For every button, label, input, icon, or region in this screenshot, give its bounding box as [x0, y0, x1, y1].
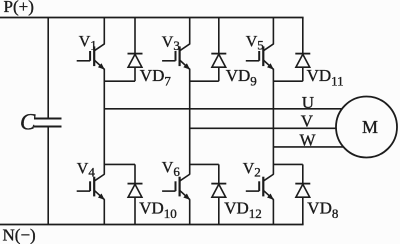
svg-text:V6: V6	[162, 160, 181, 179]
transistor V3 (IGBT)	[162, 44, 190, 70]
svg-text:VD11: VD11	[307, 66, 344, 88]
svg-text:V4: V4	[77, 160, 96, 179]
wire VD9 cathode lead	[218, 18, 220, 54]
svg-text:V5: V5	[246, 33, 264, 52]
wire VD12 anode lead	[218, 197, 220, 224]
wire VD8 cathode lead	[302, 164, 304, 183]
transistor V6 (IGBT)	[162, 174, 190, 200]
wire capacitor bottom lead	[47, 127, 49, 225]
diode VD10	[128, 184, 143, 198]
transistor V4 (IGBT)	[77, 174, 105, 200]
diode VD12	[211, 184, 226, 198]
wire V output	[190, 127, 337, 129]
diode VD9	[211, 54, 226, 68]
wire VD10 cathode lead	[134, 164, 136, 183]
svg-text:C: C	[20, 109, 36, 134]
wire VD12 cathode to phase node	[190, 163, 219, 165]
diode VD8	[295, 184, 310, 198]
wire VD10 anode lead	[134, 197, 136, 224]
capacitor C	[34, 119, 62, 127]
wire VD7 anode lead	[134, 67, 136, 81]
wire V2 emitter	[272, 200, 274, 225]
wire VD12 cathode lead	[218, 164, 220, 183]
wire phase node leg 3	[272, 69, 274, 174]
svg-text:U: U	[302, 93, 314, 112]
wire VD11 cathode lead	[302, 18, 304, 54]
wire N(-) bottom rail	[0, 224, 304, 226]
svg-text:VD10: VD10	[139, 199, 177, 221]
wire V3 collector	[189, 18, 191, 45]
wire V5 collector	[272, 18, 274, 45]
wire VD7 anode to phase node	[104, 80, 135, 82]
svg-text:V2: V2	[243, 160, 261, 179]
transistor V2 (IGBT)	[246, 174, 274, 200]
wire P(+) top rail	[0, 17, 304, 19]
svg-text:P(+): P(+)	[4, 0, 34, 16]
svg-text:V: V	[301, 111, 314, 130]
wire phase node leg 2	[189, 69, 191, 174]
wire VD11 anode to phase node	[273, 80, 302, 82]
svg-text:M: M	[362, 117, 378, 137]
wire VD7 cathode lead	[134, 18, 136, 54]
diode VD11	[295, 54, 310, 68]
wire V6 emitter	[189, 200, 191, 225]
svg-text:VD7: VD7	[140, 66, 172, 88]
motor M circle	[336, 97, 397, 158]
svg-text:V1: V1	[79, 33, 97, 52]
wire V1 collector	[103, 18, 105, 45]
svg-text:VD9: VD9	[226, 66, 257, 88]
wire phase node leg 1	[103, 69, 105, 174]
svg-text:VD12: VD12	[224, 199, 262, 221]
wire VD9 anode lead	[218, 67, 220, 81]
wire V4 emitter	[103, 200, 105, 225]
svg-text:W: W	[300, 131, 317, 150]
wire VD9 anode to phase node	[190, 80, 219, 82]
diode VD7	[128, 54, 143, 68]
wire U output	[104, 108, 342, 110]
wire capacitor top lead	[47, 18, 49, 119]
wire VD10 cathode to phase node	[104, 163, 135, 165]
wire VD8 anode lead	[302, 197, 304, 224]
wire W output	[273, 146, 344, 148]
wire VD8 cathode to phase node	[273, 163, 302, 165]
transistor V5 (IGBT)	[246, 44, 274, 70]
wire VD11 anode lead	[302, 67, 304, 81]
svg-text:V3: V3	[162, 34, 180, 53]
svg-text:VD8: VD8	[307, 199, 338, 221]
transistor V1 (IGBT)	[77, 44, 105, 70]
svg-text:N(−): N(−)	[3, 226, 36, 244]
